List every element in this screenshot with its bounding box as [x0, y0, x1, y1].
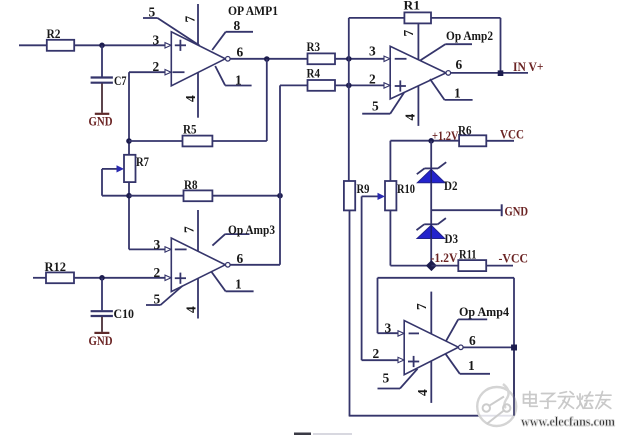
U3 pin8 leader — [212, 234, 249, 246]
node junction U4 out/loop — [511, 345, 517, 351]
U3 pin2 input arrow — [165, 275, 171, 280]
svg-text:OP AMP1: OP AMP1 — [228, 3, 278, 18]
wire R12 input stub — [33, 277, 46, 279]
wire loop bottom — [349, 415, 514, 417]
potentiometer R7 — [124, 154, 149, 182]
ground GND under C7 — [89, 114, 113, 129]
svg-text:Op Amp2: Op Amp2 — [446, 28, 493, 43]
wire R6 to VCC — [486, 140, 514, 142]
R10 wiper arrow — [362, 193, 385, 200]
wire R10 bottom lead — [390, 210, 431, 265]
svg-text:R3: R3 — [307, 39, 321, 54]
wire C10 top lead — [101, 278, 103, 310]
svg-text:6: 6 — [469, 333, 476, 348]
op-amp U4 minus sign — [409, 332, 419, 334]
wire feedback vertical x348.8 down to R9 — [348, 18, 350, 181]
svg-text:D3: D3 — [445, 231, 459, 246]
op-amp U2 minus sign — [395, 58, 407, 60]
U3 output circle pin6 — [226, 251, 244, 267]
node junction U4 out overlay — [511, 345, 517, 351]
wire to R11 — [431, 265, 458, 267]
U4 pin1 leader — [446, 354, 491, 374]
U1 pin2 input arrow — [165, 70, 171, 75]
svg-text:R8: R8 — [184, 177, 198, 192]
svg-text:8: 8 — [234, 18, 241, 33]
wire loop left vertical to U4 pin3 — [378, 278, 399, 333]
U1 pin7 power line — [183, 4, 199, 45]
wire loop right vertical overlay — [513, 347, 515, 415]
wire x129 lower (R7 bottom to U3 pin3 corner) — [128, 182, 130, 249]
node junction U1 out — [264, 56, 270, 62]
wire U1 output to R3 — [230, 58, 307, 60]
U2 pin1 leader — [430, 79, 473, 101]
ground GND right — [502, 204, 528, 219]
svg-text:R6: R6 — [458, 123, 472, 138]
node junction R4/down — [346, 83, 352, 89]
resistor R8 — [184, 177, 213, 201]
wire R10 wiper down to U4 pin2 — [362, 196, 399, 360]
svg-text:IN V+: IN V+ — [513, 59, 544, 74]
svg-text:+1.2V: +1.2V — [432, 129, 459, 143]
wire input stub to R2 — [19, 44, 47, 46]
svg-text:5: 5 — [383, 371, 390, 386]
svg-text:www.elecfans.com: www.elecfans.com — [521, 415, 615, 430]
svg-text:7: 7 — [401, 30, 416, 37]
op-amp U1 triangle — [171, 32, 225, 86]
node junction R7/R8 — [126, 193, 132, 199]
wire loop right vertical — [513, 278, 515, 416]
wire R4 to U2 pin2 — [335, 84, 385, 86]
svg-text:7: 7 — [182, 226, 197, 233]
resistor R5 — [183, 122, 213, 147]
wire R2 to U1 pin3 — [74, 44, 165, 46]
resistor R1 — [404, 0, 432, 23]
node junction +1.2V rail — [428, 138, 434, 144]
ground GND under C10 — [89, 333, 113, 348]
zener diode D2 — [417, 162, 458, 193]
wire R9 bottom long — [349, 210, 351, 415]
potentiometer R10 — [385, 181, 415, 210]
U4 pin2 input arrow — [398, 357, 404, 362]
watermark text 电子发烧友 — [524, 392, 612, 409]
svg-text:1: 1 — [468, 358, 475, 373]
svg-text:R5: R5 — [183, 122, 197, 137]
wire C7 top lead — [101, 45, 103, 76]
wire GND tap — [431, 209, 501, 211]
svg-text:5: 5 — [154, 291, 161, 306]
svg-text:6: 6 — [237, 251, 244, 266]
resistor R4 — [307, 66, 336, 91]
svg-text:1: 1 — [235, 277, 242, 292]
svg-text:5: 5 — [149, 5, 156, 20]
U1 pin5 leader — [143, 5, 200, 46]
wire R1 left — [349, 17, 405, 19]
U2 pin2 input arrow — [384, 83, 390, 88]
wire C7 bottom lead — [101, 84, 103, 113]
svg-text:VCC: VCC — [500, 127, 524, 142]
svg-text:2: 2 — [373, 346, 380, 361]
op-amp U1 plus sign (pin3 input) — [175, 40, 186, 51]
wire U4 output — [463, 346, 514, 348]
svg-text:3: 3 — [154, 237, 161, 252]
svg-text:C7: C7 — [114, 73, 127, 88]
wire R5 left — [129, 140, 183, 142]
node junction output/R1 — [498, 70, 504, 76]
U4 output circle pin6 — [459, 333, 477, 350]
wire R1 right — [431, 18, 501, 73]
wire R5 right + feedback up — [212, 59, 266, 141]
U1 pin8 leader — [212, 18, 253, 50]
svg-text:Op Amp4: Op Amp4 — [459, 304, 509, 319]
op-amp U2 plus sign — [395, 80, 406, 91]
U2 pin7 power line — [401, 23, 418, 59]
svg-text:1: 1 — [235, 72, 242, 87]
U2 pin8 leader — [421, 44, 473, 60]
wire loop top horizontal — [378, 277, 515, 279]
svg-text:R10: R10 — [397, 181, 415, 196]
svg-text:1: 1 — [454, 86, 461, 101]
node junction R2/C7 — [99, 43, 105, 49]
wire U3 output — [230, 264, 280, 266]
op-amp U2 triangle — [390, 46, 446, 99]
R7 wiper arrow — [102, 165, 124, 172]
capacitor C7 — [91, 73, 127, 88]
U2 output circle pin6 — [446, 57, 463, 75]
svg-text:4: 4 — [415, 389, 430, 396]
U2 pin5 leader — [362, 92, 404, 113]
op-amp U3 minus sign — [175, 248, 187, 250]
svg-text:R9: R9 — [357, 181, 370, 196]
wire U3 pin3 horizontal — [129, 248, 165, 250]
resistor R3 — [307, 39, 336, 64]
svg-text:-1.2V: -1.2V — [431, 251, 458, 265]
svg-text:GND: GND — [89, 114, 113, 129]
svg-text:4: 4 — [403, 114, 418, 121]
svg-text:4: 4 — [183, 95, 198, 102]
U2 pin3 input arrow — [384, 56, 390, 61]
svg-text:R7: R7 — [136, 154, 149, 169]
svg-text:6: 6 — [237, 45, 244, 60]
U4 pin8 leader — [446, 319, 487, 341]
op-amp U3 plus sign — [175, 273, 186, 284]
U2 pin4 power line — [403, 86, 419, 126]
capacitor C10 — [91, 306, 134, 321]
op-amp U1 minus sign (pin2 input) — [173, 71, 185, 73]
wire vertical x280 — [279, 85, 281, 264]
svg-text:6: 6 — [456, 57, 463, 72]
svg-text:R2: R2 — [47, 26, 61, 41]
node junction -1.2V (diamond) — [426, 260, 437, 271]
U3 pin1 leader — [212, 272, 254, 292]
wire U1 pin2 horizontal — [129, 71, 165, 73]
resistor R9 — [344, 181, 370, 210]
wire C10 bottom lead — [101, 317, 103, 332]
svg-text:R12: R12 — [45, 259, 67, 274]
wire D2 top lead — [430, 141, 432, 168]
svg-text:C10: C10 — [114, 306, 135, 321]
U1 pin3 input arrow — [165, 43, 171, 48]
svg-text:3: 3 — [153, 33, 160, 48]
wire R8 right — [212, 195, 280, 197]
U4 pin4 power line — [415, 361, 431, 403]
svg-text:3: 3 — [369, 44, 376, 59]
node junction R12/C10 — [99, 275, 105, 281]
svg-text:-VCC: -VCC — [499, 251, 529, 266]
svg-text:2: 2 — [154, 265, 161, 280]
zener diode D3 — [417, 218, 459, 246]
node junction R3/R1 feedback — [346, 56, 352, 62]
op-amp U3 triangle — [171, 238, 225, 292]
op-amp U4 plus sign — [408, 356, 419, 367]
wire R8 left — [129, 195, 184, 197]
U1 pin1 leader — [215, 66, 251, 87]
U4 pin5 leader — [378, 369, 418, 389]
svg-text:7: 7 — [183, 16, 198, 23]
svg-text:3: 3 — [385, 321, 392, 336]
svg-text:GND: GND — [89, 333, 113, 348]
svg-text:R11: R11 — [459, 247, 477, 262]
svg-text:R4: R4 — [307, 66, 321, 81]
wire D2-D3 lead — [430, 183, 432, 224]
node junction R5 left — [126, 138, 132, 144]
wire R12 to U3 pin2 — [74, 277, 165, 279]
wire R4 left — [280, 84, 308, 86]
svg-text:7: 7 — [414, 303, 429, 310]
wire U2 output to IN V+ — [451, 72, 528, 74]
svg-text:Op Amp3: Op Amp3 — [228, 222, 275, 237]
wire D3 bottom lead — [430, 239, 432, 266]
U3 pin7 power line — [182, 210, 199, 251]
U4 pin7 power line — [414, 292, 431, 334]
U4 pin3 input arrow — [398, 331, 404, 336]
resistor R12 — [45, 259, 75, 283]
caption fragment bottom — [294, 433, 352, 436]
svg-text:R1: R1 — [404, 0, 421, 13]
wire R7 wiper loop — [102, 169, 129, 196]
op-amp U4 triangle — [404, 321, 458, 375]
wire R10 top lead — [390, 141, 459, 181]
watermark logo elecfans — [477, 384, 516, 426]
U1 pin4 power line — [183, 73, 198, 118]
wire R11 to -VCC — [486, 265, 513, 267]
resistor R6 — [458, 123, 486, 147]
U3 pin3 input arrow — [165, 247, 171, 252]
resistor R11 — [458, 247, 486, 272]
svg-text:5: 5 — [372, 99, 379, 114]
wire R3 to U2 pin3 — [335, 58, 385, 60]
svg-text:2: 2 — [369, 72, 376, 87]
U3 pin5 leader — [146, 286, 182, 306]
svg-text:GND: GND — [505, 204, 529, 219]
U1 output circle pin6 — [226, 45, 244, 62]
resistor R2 — [47, 26, 75, 51]
node junction R8/R4/U3out — [277, 193, 283, 199]
wire vertical x129 upper — [128, 72, 130, 155]
svg-text:D2: D2 — [444, 178, 458, 193]
U3 pin4 power line — [184, 278, 199, 318]
svg-text:4: 4 — [184, 306, 199, 313]
